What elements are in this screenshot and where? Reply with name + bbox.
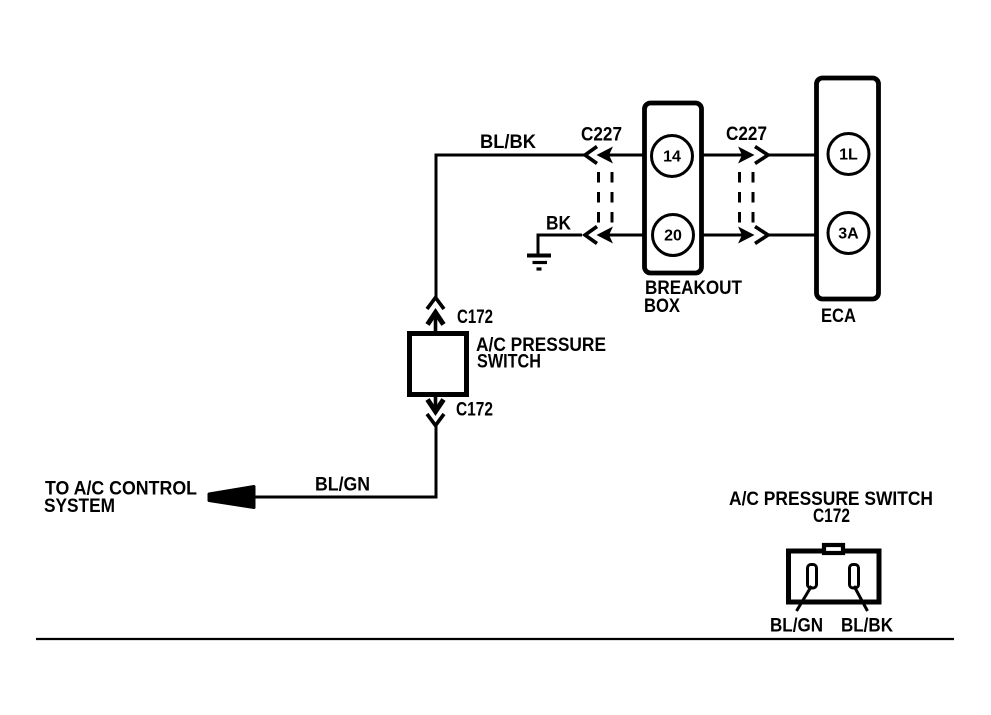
- wire BL/BK horizontal top segment: [435, 154, 584, 157]
- svg-text:BL/GN: BL/GN: [770, 616, 823, 637]
- connector C227 left half pin20 row: filled arrow: [597, 227, 614, 244]
- A/C pressure switch box: [410, 334, 467, 395]
- wire vertical from BL/BK down to C172 connector: [435, 154, 438, 299]
- svg-text:BK: BK: [546, 214, 571, 235]
- connector C172 body (inset view): [789, 551, 880, 602]
- svg-text:SWITCH: SWITCH: [477, 352, 541, 373]
- breakout box body: [645, 103, 702, 273]
- svg-text:C227: C227: [581, 125, 622, 146]
- horizontal separator rule: [36, 638, 954, 640]
- connector C172 locking tab: [824, 545, 843, 553]
- svg-text:BL/BK: BL/BK: [480, 132, 536, 153]
- svg-text:BL/BK: BL/BK: [841, 616, 893, 637]
- breakout box pin 14 circle: [652, 136, 693, 177]
- connector C172 terminal BL/GN (left pin): [808, 565, 817, 589]
- connector C227 left half pin20 row: open chevron: [585, 227, 597, 244]
- wire breakout box to C227 right row20: [702, 234, 742, 237]
- wire BK from ground to C227: [538, 235, 582, 254]
- leader line left pin: [797, 586, 812, 611]
- connector C172 lower: open chevron down: [427, 414, 444, 426]
- wire C227 to breakout box row14: [609, 154, 644, 157]
- svg-text:C172: C172: [456, 400, 493, 421]
- svg-text:BL/GN: BL/GN: [315, 475, 370, 496]
- connector C172 upper: filled arrow up with shaft: [428, 313, 444, 325]
- ECA pin 3A circle: [828, 213, 869, 254]
- connector C227 right half pin14 row: filled arrow: [738, 147, 755, 164]
- connector C227 dashed mating boundary (left pair): [597, 172, 600, 223]
- connector C172 terminal BL/BK (right pin): [850, 565, 859, 589]
- svg-text:C227: C227: [726, 124, 767, 145]
- wire C227 to breakout box row20: [609, 234, 644, 237]
- svg-text:SYSTEM: SYSTEM: [44, 496, 115, 517]
- connector C172 upper: open chevron up: [427, 298, 444, 310]
- ECA box body: [817, 78, 879, 299]
- connector C227 left half pin14 row: filled arrow: [597, 147, 614, 164]
- svg-text:1L: 1L: [839, 147, 858, 164]
- leader line right pin: [854, 586, 868, 611]
- arrow to A/C control system: [209, 487, 254, 508]
- ground symbol: [527, 256, 551, 270]
- wire BL/GN horizontal to A/C control system: [250, 496, 438, 499]
- svg-text:C172: C172: [813, 506, 850, 527]
- connector C227 dashed mating boundary (right pair): [738, 172, 741, 223]
- connector C227 right half pin20 row: filled arrow: [738, 227, 755, 244]
- wire C227 to ECA row20: [767, 234, 816, 237]
- breakout box pin 20 circle: [653, 215, 694, 256]
- svg-text:14: 14: [663, 149, 681, 166]
- svg-text:BOX: BOX: [644, 296, 680, 317]
- svg-text:C172: C172: [457, 307, 493, 328]
- wire C227 to ECA row14: [767, 154, 816, 157]
- wire from C172 down to corner: [435, 426, 438, 498]
- connector C172 lower: filled arrow down with shaft: [434, 397, 438, 409]
- connector C227 right half pin20 row: open chevron: [755, 227, 768, 244]
- svg-text:20: 20: [664, 228, 682, 245]
- ECA pin 1L circle: [828, 134, 869, 175]
- connector C227 right half pin14 row: open chevron: [755, 147, 768, 164]
- wire breakout box to C227 right row14: [702, 154, 742, 157]
- svg-text:3A: 3A: [838, 226, 859, 243]
- connector C227 left half pin14 row: open chevron: [585, 147, 597, 164]
- svg-text:ECA: ECA: [821, 306, 856, 327]
